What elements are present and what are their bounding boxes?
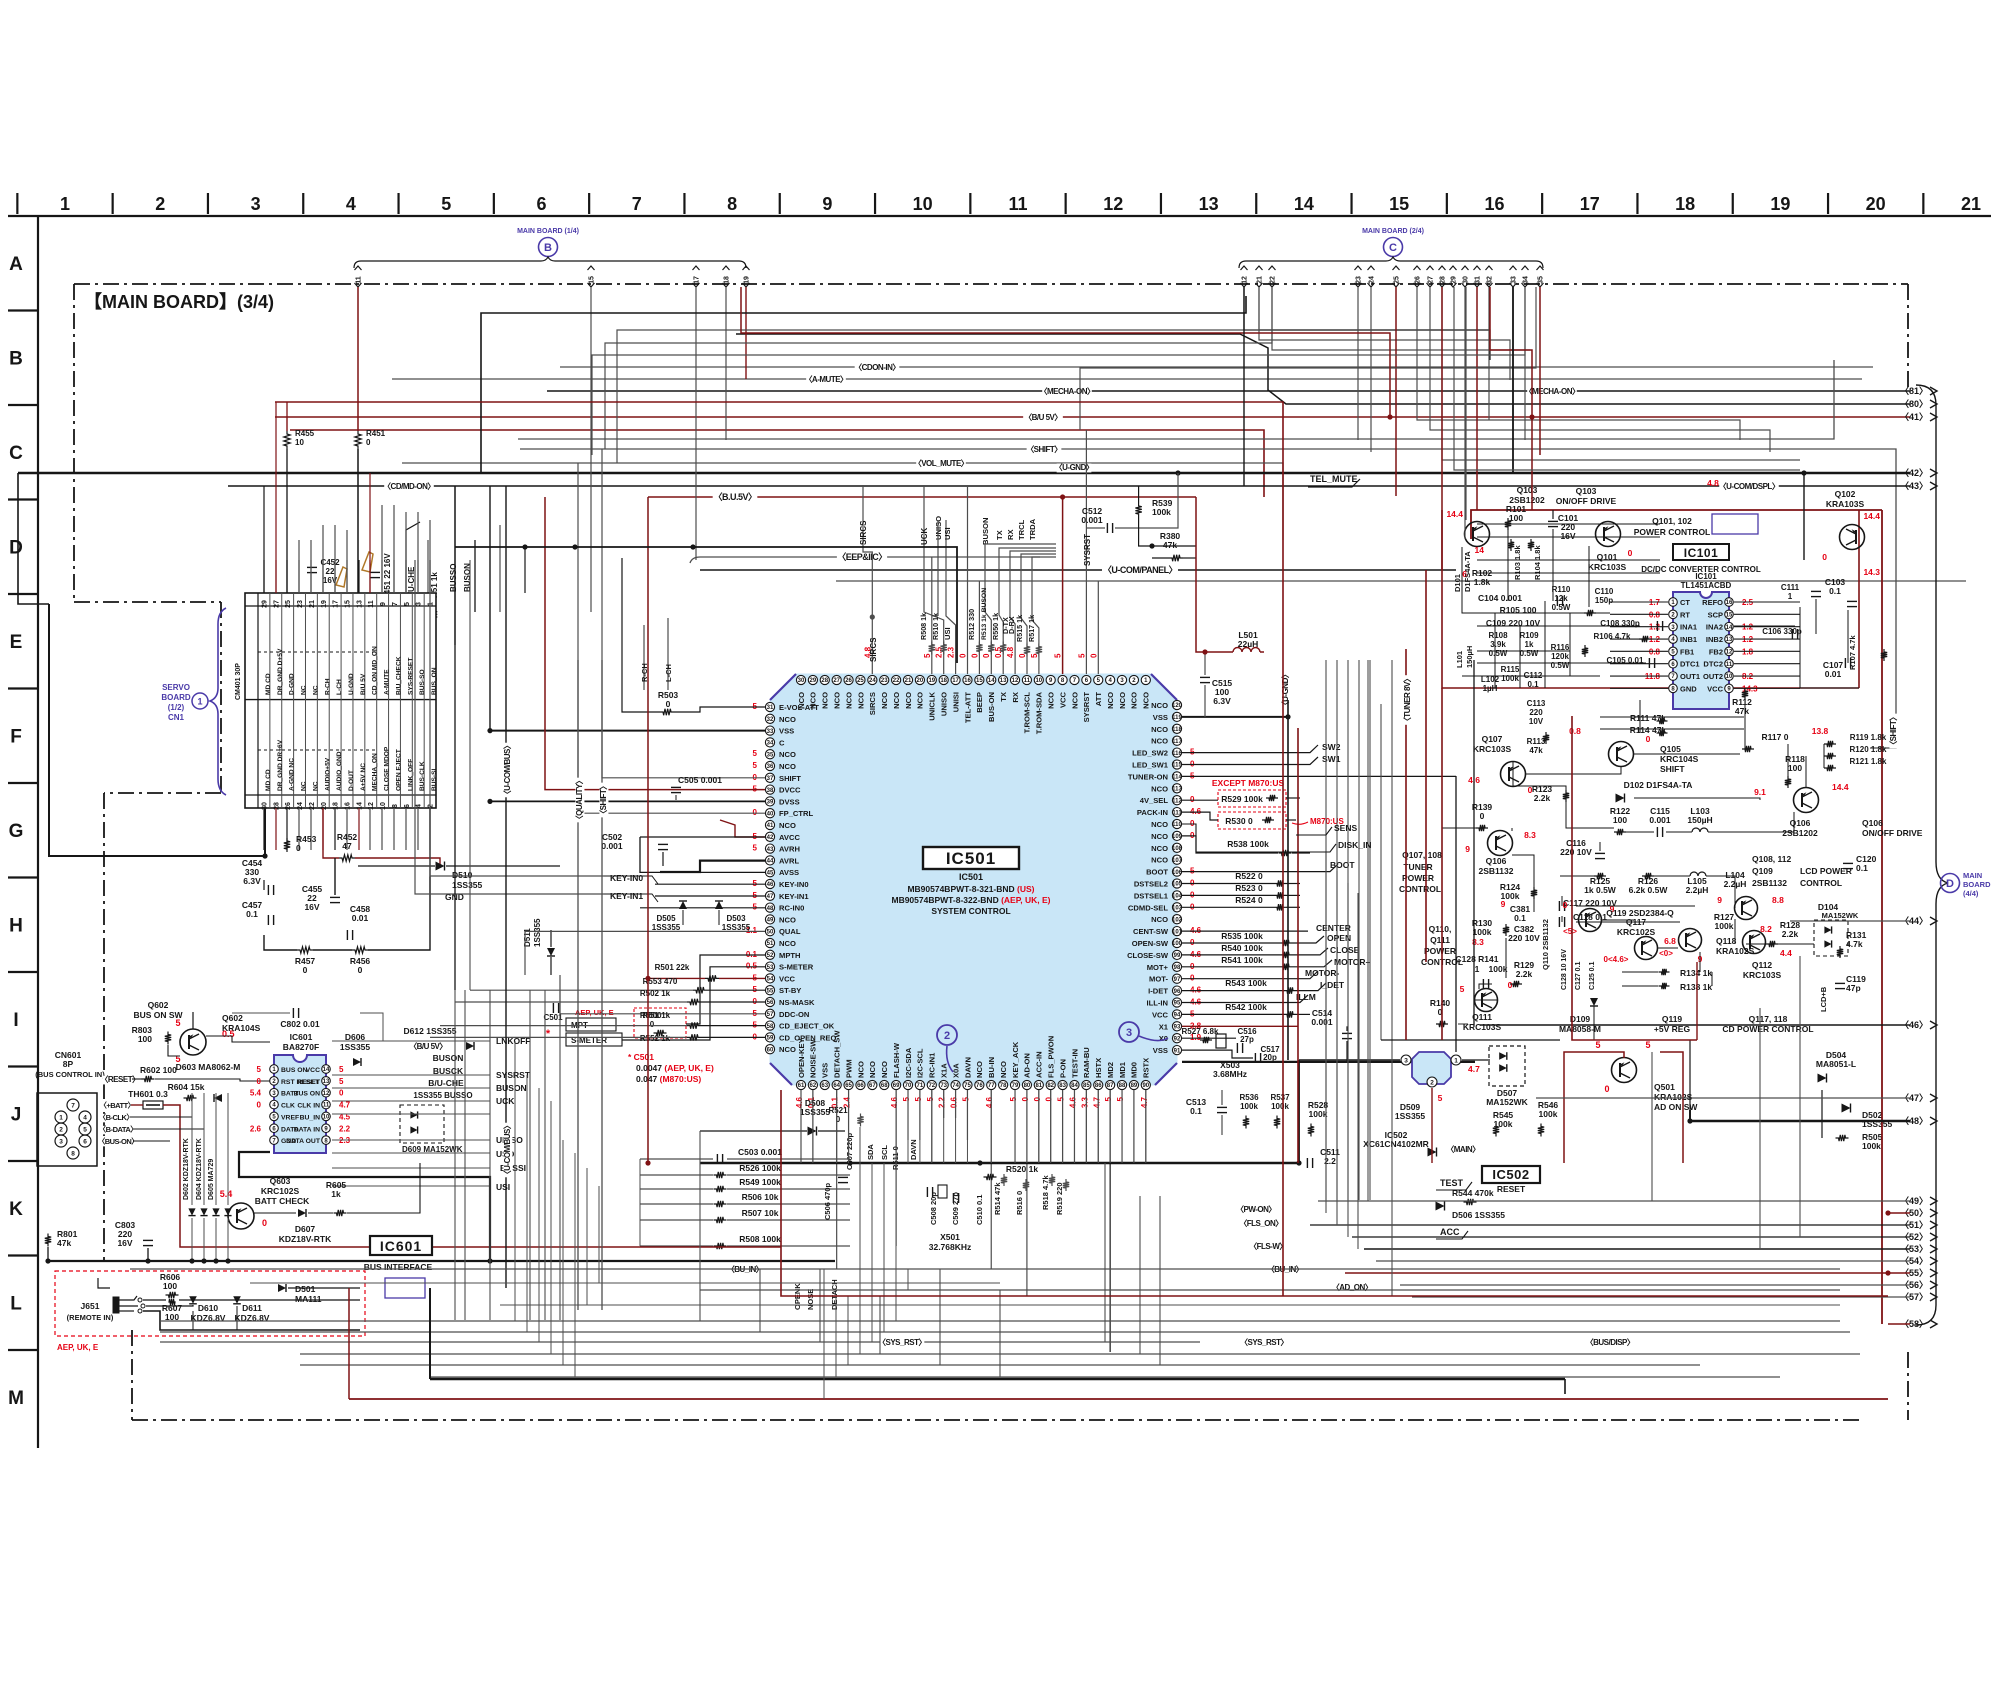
svg-text:0: 0 — [958, 653, 967, 658]
svg-text:40: 40 — [767, 811, 774, 817]
svg-text:RX: RX — [1006, 529, 1015, 540]
purple rect power control — [1712, 514, 1758, 534]
svg-text:INA2: INA2 — [1706, 623, 1723, 632]
transistor Q103 — [1465, 522, 1490, 547]
wire Q603 out — [254, 1212, 296, 1214]
svg-text:R518 4.7k: R518 4.7k — [1041, 1175, 1050, 1210]
svg-text:R506 10k: R506 10k — [742, 1192, 779, 1202]
svg-text:KRC102S: KRC102S — [1617, 927, 1656, 937]
svg-text:R106 4.7k: R106 4.7k — [1594, 632, 1631, 641]
svg-text:R529 100k: R529 100k — [1221, 794, 1263, 804]
svg-text:FLS_PWON: FLS_PWON — [1046, 1036, 1055, 1078]
svg-text:TEL-ATT: TEL-ATT — [963, 692, 972, 723]
svg-text:R523 0: R523 0 — [1235, 883, 1263, 893]
svg-text:BUS-SI: BUS-SI — [431, 768, 438, 791]
CN401 column risers — [263, 486, 265, 593]
IC502 boxed label — [1482, 1166, 1540, 1183]
svg-text:LED_SW2: LED_SW2 — [1132, 749, 1168, 758]
resistor R453 — [284, 838, 290, 852]
svg-text:43: 43 — [767, 847, 774, 853]
svg-text:NCO: NCO — [1046, 692, 1055, 709]
svg-text:DR_GND D+5V: DR_GND D+5V — [277, 648, 284, 695]
svg-text:D-GND: D-GND — [289, 673, 296, 695]
wire B/U 5V maroon bus to <41> — [275, 416, 1910, 418]
wire RC-IN0 diodes — [640, 907, 765, 909]
staircase black y313 — [481, 296, 1246, 473]
svg-text:VREF: VREF — [281, 1114, 299, 1121]
wire U-COM/DSPL bus to <43> — [228, 485, 1910, 487]
wire +BATT maroon — [131, 1104, 143, 1106]
svg-text:1: 1 — [1454, 1057, 1458, 1064]
wires above CN401 table — [263, 560, 265, 593]
svg-text:BOOT: BOOT — [1146, 868, 1168, 877]
vertical black x1455 x1474 — [1455, 776, 1457, 1052]
svg-text:OPEN-KEY: OPEN-KEY — [797, 1038, 806, 1078]
svg-text:X501: X501 — [940, 1232, 960, 1242]
svg-text:R508 1k: R508 1k — [919, 613, 928, 640]
svg-text:DVCC: DVCC — [779, 786, 801, 795]
svg-text:3: 3 — [1404, 1057, 1408, 1064]
dashed diode box D608 — [400, 1105, 444, 1143]
wire VSS119 thick — [1182, 716, 1288, 718]
svg-text:47k: 47k — [1529, 746, 1543, 755]
svg-text:67: 67 — [869, 1083, 876, 1089]
brace C — [1239, 257, 1543, 268]
svg-text:BOOT: BOOT — [1330, 860, 1355, 870]
maroon x1283 to bottom — [1282, 728, 1284, 1296]
svg-text:NCO: NCO — [1151, 784, 1168, 793]
svg-text:53: 53 — [767, 965, 774, 971]
svg-text:5: 5 — [339, 1077, 344, 1086]
svg-text:F: F — [10, 727, 22, 748]
svg-text:1: 1 — [197, 697, 202, 707]
svg-text:5: 5 — [914, 1096, 923, 1101]
svg-text:Q111: Q111 — [1472, 1012, 1492, 1022]
resistor R452 — [339, 855, 355, 861]
wire UNISO column — [937, 520, 939, 616]
svg-text:*: * — [546, 1028, 551, 1040]
svg-text:13: 13 — [356, 600, 363, 608]
svg-text:0.001: 0.001 — [1311, 1017, 1333, 1027]
wire maroon bus 2 — [290, 430, 1264, 497]
svg-text:L-CH: L-CH — [336, 679, 343, 695]
maroon vertical x1298 — [1297, 728, 1299, 1163]
svg-text:A-GND NC: A-GND NC — [289, 758, 296, 791]
svg-text:R542 100k: R542 100k — [1225, 1002, 1267, 1012]
IC501 corner accents — [770, 674, 796, 700]
svg-text:13: 13 — [1000, 678, 1007, 684]
svg-text:BOARD: BOARD — [1963, 880, 1991, 889]
svg-text:R543 100k: R543 100k — [1225, 978, 1267, 988]
svg-text:6.3V: 6.3V — [243, 876, 261, 886]
wire VCC94 maroon — [1182, 1025, 1298, 1027]
svg-text:15: 15 — [1389, 194, 1409, 214]
svg-text:R451: R451 — [366, 429, 386, 438]
svg-text:KEY-IN0: KEY-IN0 — [610, 873, 643, 883]
svg-text:〈80〉: 〈80〉 — [1900, 399, 1928, 409]
svg-text:D604 KDZ18V-RTK: D604 KDZ18V-RTK — [196, 1138, 203, 1200]
svg-text:4: 4 — [416, 804, 423, 808]
svg-text:71: 71 — [917, 1083, 924, 1089]
svg-text:11: 11 — [1008, 194, 1027, 214]
svg-text:CN1: CN1 — [168, 713, 185, 722]
svg-text:D511: D511 — [523, 928, 532, 947]
svg-text:13: 13 — [1199, 194, 1219, 214]
svg-text:INB1: INB1 — [1680, 635, 1697, 644]
svg-text:5: 5 — [404, 602, 411, 606]
svg-text:4.7k: 4.7k — [1846, 939, 1863, 949]
Q602 interconnects — [206, 1048, 270, 1069]
svg-text:C503 0.001: C503 0.001 — [738, 1147, 782, 1157]
svg-text:T.ROM-SCL: T.ROM-SCL — [1023, 692, 1032, 734]
svg-text:0.5W: 0.5W — [1551, 661, 1570, 670]
IC101 right pins — [1725, 598, 1734, 607]
svg-text:MECHA_ON: MECHA_ON — [372, 753, 379, 791]
maroon trunk right join — [1885, 1210, 1890, 1215]
wire pin22 staircase — [1272, 350, 1790, 390]
wire B.U.5V maroon bus — [648, 496, 1196, 498]
svg-text:28: 28 — [1440, 276, 1447, 284]
svg-text:MA152WK: MA152WK — [1822, 911, 1859, 920]
svg-text:8: 8 — [727, 194, 737, 214]
net PW-ON — [1239, 1205, 1274, 1214]
purple circled 2 — [937, 1025, 957, 1045]
svg-text:ILLM: ILLM — [1296, 992, 1316, 1002]
svg-text:0: 0 — [1045, 1096, 1054, 1101]
svg-text:15: 15 — [589, 276, 596, 284]
svg-text:<5>: <5> — [1563, 927, 1577, 936]
wire pin37 SHIFT — [602, 449, 765, 778]
wire VCC pin8 maroon — [1062, 497, 1064, 674]
svg-text:J651: J651 — [81, 1301, 100, 1311]
svg-text:USI: USI — [943, 527, 952, 540]
svg-text:47: 47 — [767, 894, 774, 900]
vertical x1299 black thick — [1298, 1060, 1300, 1163]
svg-text:R544 470k: R544 470k — [1452, 1188, 1494, 1198]
svg-text:2.3: 2.3 — [339, 1136, 351, 1145]
svg-text:49: 49 — [767, 918, 774, 924]
svg-text:16V: 16V — [117, 1238, 132, 1248]
svg-text:14: 14 — [988, 678, 995, 684]
svg-text:SW1: SW1 — [1322, 754, 1341, 764]
svg-text:0: 0 — [982, 653, 991, 658]
svg-text:AVCC: AVCC — [779, 833, 800, 842]
svg-text:15: 15 — [1726, 613, 1733, 619]
svg-text:25: 25 — [1394, 276, 1401, 284]
svg-text:0.1: 0.1 — [746, 950, 758, 959]
svg-text:16: 16 — [344, 802, 351, 810]
net tag MECHA-ON — [1042, 387, 1092, 396]
svg-text:95: 95 — [1174, 1001, 1181, 1007]
wire SIRCS from pin24 — [863, 485, 872, 674]
svg-text:NCO: NCO — [779, 715, 796, 724]
svg-text:23: 23 — [297, 600, 304, 608]
maroon power loop top — [1471, 510, 1882, 539]
svg-text:NCO: NCO — [880, 692, 889, 709]
svg-text:23: 23 — [1356, 276, 1363, 284]
svg-text:GND: GND — [1680, 684, 1697, 693]
svg-text:I_DET: I_DET — [1320, 980, 1345, 990]
svg-text:R541 100k: R541 100k — [1221, 955, 1263, 965]
resistor R500 dashed box — [634, 1008, 686, 1038]
svg-text:34: 34 — [1523, 276, 1530, 284]
svg-text:3: 3 — [251, 194, 261, 214]
svg-text:NCO: NCO — [1151, 915, 1168, 924]
svg-text:* C501: * C501 — [628, 1052, 654, 1062]
svg-text:5: 5 — [926, 1096, 935, 1101]
svg-text:KEY-IN1: KEY-IN1 — [610, 891, 643, 901]
svg-text:〈MECHA-ON〉: 〈MECHA-ON〉 — [1040, 386, 1095, 396]
svg-text:2.6: 2.6 — [250, 1124, 262, 1133]
svg-text:0.001: 0.001 — [1081, 515, 1103, 525]
svg-text:99: 99 — [1174, 953, 1181, 959]
board dash-dot border — [74, 283, 1908, 285]
svg-text:ACC-IN: ACC-IN — [1035, 1051, 1044, 1078]
svg-text:Q110 2SB1132: Q110 2SB1132 — [1541, 919, 1550, 970]
wire to 47 — [1536, 1097, 1910, 1099]
svg-text:44: 44 — [767, 859, 774, 865]
svg-text:0: 0 — [1480, 811, 1485, 821]
net B/U 5V left — [408, 1042, 448, 1051]
svg-text:100k: 100k — [1489, 964, 1508, 974]
more under-IC501 bends — [819, 1269, 821, 1342]
svg-text:X1: X1 — [1159, 1022, 1169, 1031]
svg-text:K: K — [9, 1199, 23, 1220]
svg-text:KRA104S: KRA104S — [222, 1023, 261, 1033]
svg-text:24: 24 — [869, 678, 876, 684]
brace C pin arrows — [1241, 266, 1248, 270]
svg-text:0: 0 — [257, 1077, 262, 1086]
svg-text:NCO: NCO — [832, 692, 841, 709]
svg-text:2SB1132: 2SB1132 — [1479, 866, 1514, 876]
svg-text:BUS ON: BUS ON — [281, 1067, 308, 1074]
svg-text:LED_SW1: LED_SW1 — [1132, 761, 1169, 770]
wire ATT pin5 — [1097, 581, 1099, 674]
svg-text:R501 22k: R501 22k — [655, 963, 690, 972]
svg-text:58: 58 — [767, 1024, 774, 1030]
IC601 right pins — [322, 1065, 331, 1074]
svg-text:TL1451ACBD: TL1451ACBD — [1681, 581, 1732, 590]
svg-text:C125 0.1: C125 0.1 — [1589, 961, 1596, 990]
svg-text:B/U-CHE: B/U-CHE — [428, 1078, 464, 1088]
svg-text:94: 94 — [1174, 1013, 1181, 1019]
svg-text:AEP, UK, E: AEP, UK, E — [57, 1343, 99, 1352]
svg-text:R115: R115 — [1501, 665, 1520, 674]
svg-text:R507 10k: R507 10k — [742, 1208, 779, 1218]
svg-text:C127 0.1: C127 0.1 — [1575, 961, 1582, 990]
svg-text:10: 10 — [1035, 678, 1042, 684]
svg-text:AUDIO+5V: AUDIO+5V — [324, 757, 331, 791]
svg-text:ON/OFF DRIVE: ON/OFF DRIVE — [1862, 828, 1923, 838]
svg-text:MD2: MD2 — [1106, 1062, 1115, 1078]
svg-text:NCO: NCO — [856, 692, 865, 709]
wire B-CLK — [130, 1116, 192, 1118]
wire SYSRST pin6 — [1085, 430, 1087, 674]
wire pin11 maroon vertical — [357, 287, 359, 431]
svg-text:R138 1k: R138 1k — [1680, 982, 1712, 992]
svg-text:〈VOL_MUTE〉: 〈VOL_MUTE〉 — [914, 458, 969, 468]
net RESET — [103, 1075, 138, 1084]
gray risers above IC101 — [1465, 287, 1467, 520]
svg-text:33: 33 — [767, 729, 774, 735]
svg-text:17: 17 — [694, 276, 701, 284]
svg-text:MOT-: MOT- — [1149, 975, 1168, 984]
wire R-CH vertical — [643, 625, 645, 690]
svg-text:100k: 100k — [1539, 1109, 1558, 1119]
svg-text:14: 14 — [356, 802, 363, 810]
svg-text:5: 5 — [753, 761, 758, 770]
wire maroon bottom left — [348, 1288, 350, 1399]
net FLS-W — [1251, 1242, 1286, 1251]
wire pin12 down — [1243, 287, 1245, 486]
svg-text:NCO: NCO — [1151, 844, 1168, 853]
svg-text:5: 5 — [1077, 653, 1086, 658]
CN401 dashed group separators — [258, 651, 376, 653]
svg-text:5: 5 — [175, 1018, 180, 1028]
net tag EEP&IIC — [837, 553, 887, 563]
svg-text:R515 1k: R515 1k — [1015, 615, 1024, 642]
svg-text:10: 10 — [913, 194, 933, 214]
wire KEY lines left — [430, 560, 604, 876]
svg-text:0.01: 0.01 — [1825, 669, 1842, 679]
wire maroon through R452 — [323, 808, 339, 858]
svg-text:USI: USI — [943, 627, 952, 640]
svg-text:VCC: VCC — [779, 974, 796, 983]
svg-text:R104 1.8k: R104 1.8k — [1533, 545, 1542, 580]
svg-text:TRDA: TRDA — [1028, 518, 1037, 540]
wire to 48 thick — [1690, 1120, 1910, 1122]
svg-text:120k: 120k — [1551, 652, 1569, 661]
svg-text:VCC: VCC — [1707, 684, 1723, 693]
resistor R455 — [284, 431, 290, 449]
svg-text:48: 48 — [767, 906, 774, 912]
svg-text:USI: USI — [496, 1182, 510, 1192]
thick gnd from IC601 — [239, 1152, 490, 1261]
svg-text:CD_EJECT_OK: CD_EJECT_OK — [779, 1022, 835, 1031]
svg-text:21: 21 — [1257, 276, 1264, 284]
svg-text:OUT1: OUT1 — [1680, 672, 1700, 681]
svg-text:D505: D505 — [656, 914, 676, 923]
svg-text:13: 13 — [323, 1079, 330, 1085]
svg-text:D109: D109 — [1570, 1014, 1591, 1024]
transistor Q105 — [1609, 742, 1634, 767]
svg-text:15: 15 — [976, 678, 983, 684]
svg-text:〈MAIN〉: 〈MAIN〉 — [1446, 1144, 1479, 1154]
svg-text:MB90574BPWT-8-322-BND (AEP, UK: MB90574BPWT-8-322-BND (AEP, UK, E) — [891, 895, 1050, 905]
svg-text:AVRL: AVRL — [779, 856, 799, 865]
svg-text:0: 0 — [366, 438, 371, 447]
svg-text:〈B-DATA〉: 〈B-DATA〉 — [99, 1124, 138, 1134]
svg-text:1SS355: 1SS355 — [533, 918, 542, 947]
svg-text:87: 87 — [1107, 1083, 1114, 1089]
net tag B/U 5V — [1023, 413, 1063, 422]
svg-text:89: 89 — [1131, 1083, 1138, 1089]
IC502 pin 3 — [1401, 1055, 1411, 1065]
svg-text:RSTX: RSTX — [1142, 1058, 1151, 1078]
svg-text:0: 0 — [339, 1089, 344, 1098]
svg-text:R508 100k: R508 100k — [739, 1234, 781, 1244]
svg-text:(BUS CONTROL IN): (BUS CONTROL IN) — [35, 1070, 105, 1079]
svg-text:8.3: 8.3 — [1524, 830, 1536, 840]
maroon bottom loop — [781, 1090, 1888, 1296]
svg-text:〈B/U 5V〉: 〈B/U 5V〉 — [1024, 412, 1062, 422]
wire bus to <80> — [736, 334, 1910, 404]
svg-text:12: 12 — [1103, 194, 1123, 214]
svg-text:0.5W: 0.5W — [1552, 603, 1571, 612]
svg-text:0.5: 0.5 — [746, 962, 758, 971]
svg-text:KEY-IN1: KEY-IN1 — [779, 892, 809, 901]
wire ILL-IN — [1182, 995, 1308, 1003]
svg-text:1SS355: 1SS355 — [452, 880, 483, 890]
svg-text:CLOSE MDOP: CLOSE MDOP — [384, 746, 391, 791]
svg-text:5: 5 — [441, 194, 451, 214]
svg-text:24: 24 — [1369, 276, 1376, 284]
svg-text:27p: 27p — [1240, 1035, 1254, 1044]
svg-text:3: 3 — [416, 602, 423, 606]
svg-text:31: 31 — [767, 705, 774, 711]
svg-text:ST-BY: ST-BY — [779, 986, 801, 995]
svg-text:11: 11 — [1726, 662, 1733, 668]
svg-text:73: 73 — [940, 1083, 947, 1089]
svg-text:BUS_ON: BUS_ON — [431, 667, 438, 695]
svg-text:KRC104S: KRC104S — [1660, 754, 1699, 764]
svg-text:14: 14 — [323, 1067, 330, 1073]
svg-text:18: 18 — [940, 678, 947, 684]
transistor Q102 — [1840, 525, 1865, 550]
svg-text:SERVO: SERVO — [162, 683, 190, 692]
svg-text:CENT-SW: CENT-SW — [1133, 927, 1169, 936]
svg-text:R108: R108 — [1488, 631, 1508, 640]
wire AVRL pin44 thick — [660, 861, 765, 872]
svg-text:4.7: 4.7 — [1140, 1096, 1149, 1108]
right fan feed verticals — [1759, 1008, 1761, 1249]
TUNER8V maroon extend — [1405, 840, 1407, 1040]
svg-text:RAM-BU: RAM-BU — [1082, 1047, 1091, 1078]
svg-text:S-METER: S-METER — [779, 963, 814, 972]
svg-text:47p: 47p — [1846, 983, 1861, 993]
svg-text:5: 5 — [83, 1127, 87, 1134]
svg-text:NCO: NCO — [916, 692, 925, 709]
svg-text:7: 7 — [392, 602, 399, 606]
svg-text:J: J — [11, 1105, 22, 1126]
svg-text:〈SYS_RST〉: 〈SYS_RST〉 — [878, 1337, 926, 1347]
svg-text:3: 3 — [59, 1139, 63, 1146]
svg-text:0: 0 — [1021, 1096, 1030, 1101]
svg-text:BATT CHECK: BATT CHECK — [255, 1196, 310, 1206]
IC501 title box — [923, 847, 1019, 869]
svg-text:17: 17 — [952, 678, 959, 684]
IC101 block — [1673, 592, 1729, 709]
resistor R456 — [352, 947, 368, 953]
net SYS_RST tags — [880, 1338, 925, 1347]
svg-text:0.5W: 0.5W — [1489, 649, 1508, 658]
svg-text:R120 1.8k: R120 1.8k — [1850, 745, 1887, 754]
svg-text:UNISO: UNISO — [939, 692, 948, 716]
svg-text:NCO: NCO — [1151, 820, 1168, 829]
svg-text:SYSRST: SYSRST — [1083, 534, 1092, 566]
svg-text:20: 20 — [1866, 194, 1886, 214]
svg-text:4.8: 4.8 — [1006, 646, 1015, 658]
resistor R530 dashed box — [1218, 812, 1286, 829]
wire hooks above table — [406, 522, 420, 617]
left top verticals from B brace — [590, 287, 592, 300]
svg-text:64: 64 — [833, 1083, 840, 1089]
svg-text:0: 0 — [1646, 734, 1651, 744]
svg-text:112: 112 — [1172, 798, 1182, 804]
svg-text:ATT: ATT — [1094, 692, 1103, 707]
svg-text:25: 25 — [857, 678, 864, 684]
svg-text:Q501: Q501 — [1654, 1082, 1675, 1092]
